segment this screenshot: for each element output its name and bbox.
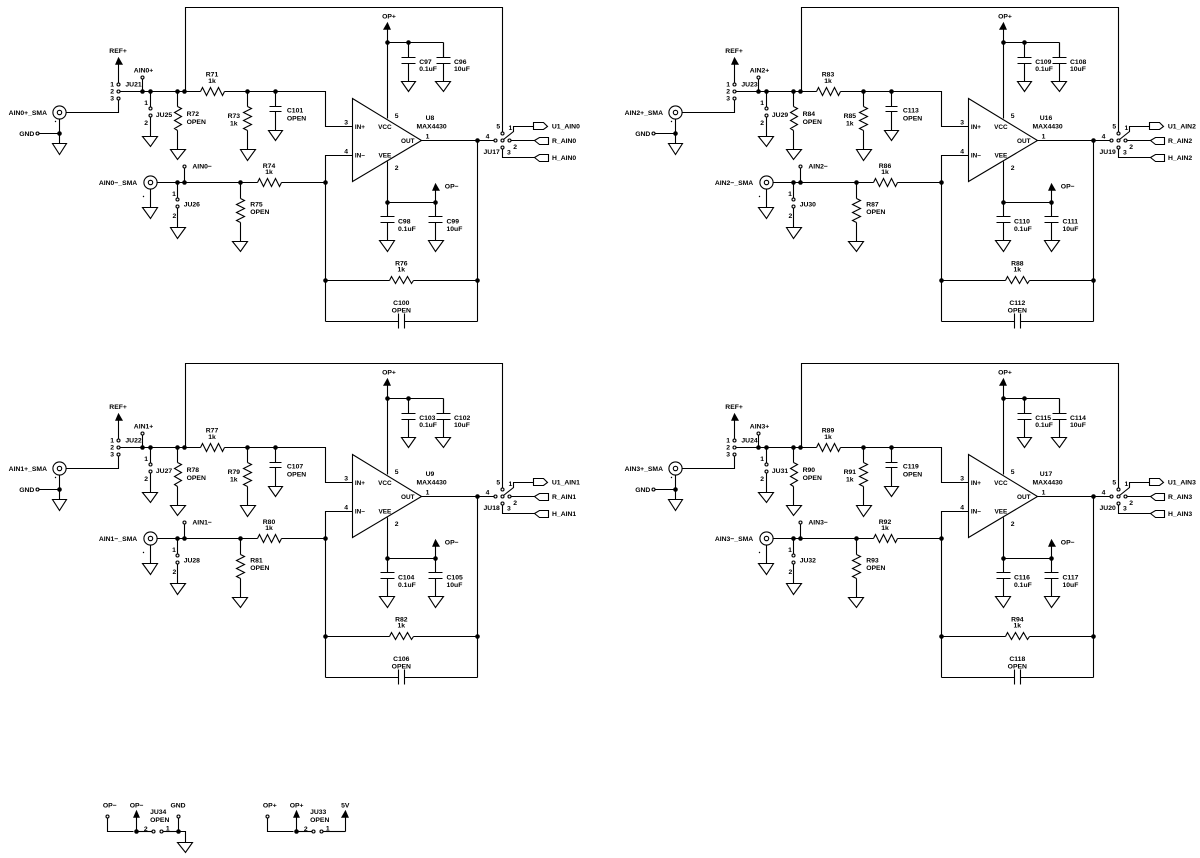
wire (OP- decoupling rail) [1004,202,1052,204]
svg-text:1: 1 [788,547,792,554]
wire (R78 leads) [177,448,179,506]
svg-text:1k: 1k [1014,267,1022,274]
svg-text:5: 5 [395,113,399,120]
svg-text:2: 2 [1129,144,1133,151]
capacitor C116 (0.1uF) [997,559,1032,597]
svg-text:5: 5 [395,469,399,476]
junction [175,536,180,541]
wire (R-in to IN- node) [898,182,942,184]
wire (OP- to centre) [108,818,134,832]
resistor R71 (1k) [201,72,225,96]
capacitor C113 (OPEN) [886,92,923,131]
junction [406,40,411,45]
node OP- [103,803,117,818]
wire (SMA- shield to ground) [766,190,768,208]
svg-text:C114: C114 [1070,415,1086,422]
jumper JU29 [760,92,788,137]
wire (op-amp output) [1038,496,1111,498]
svg-text:10uF: 10uF [447,226,463,233]
junction [433,200,438,205]
wire (R-in to IN- node) [282,538,326,540]
wire (GND stub) [178,818,180,830]
svg-text:U1_AIN3: U1_AIN3 [1168,480,1196,487]
junction [134,829,139,834]
jumper JU28 [172,539,200,584]
wire (top rail to output jumper pin 5) [186,8,503,133]
svg-text:IN−: IN− [355,152,365,159]
svg-text:VEE: VEE [379,152,393,159]
svg-text:JU19: JU19 [1100,149,1116,156]
svg-text:4: 4 [960,148,964,155]
junction [861,445,866,450]
net flag U1_AIN3 [1150,479,1197,487]
svg-text:1k: 1k [230,477,238,484]
junction [273,445,278,450]
svg-text:H_AIN1: H_AIN1 [552,511,576,518]
junction [175,180,180,185]
ground (C107) [269,487,283,497]
jumper JU31 [760,448,788,493]
wire (main row to op-amp IN+) [225,92,353,127]
capacitor C99 (10uF) [429,203,463,241]
junction [798,445,803,450]
svg-text:2: 2 [726,89,730,96]
wire (SMA- shield to ground) [766,546,768,564]
power REF+ [725,48,743,82]
svg-text:C110: C110 [1014,219,1030,226]
svg-text:2: 2 [144,476,148,483]
svg-text:4: 4 [344,148,348,155]
node GND [635,487,655,494]
svg-text:C100: C100 [393,300,409,307]
resistor R94 (1k) [1006,616,1030,639]
junction [791,536,796,541]
junction [1001,200,1006,205]
ground (C102) [436,438,451,448]
op-amp U8 MAX4430 [344,99,447,182]
svg-text:JU24: JU24 [741,438,757,445]
ground (C113) [885,131,899,141]
op-amp U16 MAX4430 [960,99,1063,182]
svg-text:1: 1 [144,456,148,463]
junction [1001,396,1006,401]
wire (feedback resistor row) [942,636,1094,638]
svg-text:H_AIN2: H_AIN2 [1168,155,1192,162]
wire (IN- node vertical to feedback) [326,156,353,322]
net flag H_AIN0 [535,155,577,163]
junction [323,536,328,541]
ground (C97) [402,82,416,92]
svg-text:AIN0+_SMA: AIN0+_SMA [9,110,47,117]
svg-text:5: 5 [1112,480,1116,487]
resistor R85 (1k) [844,107,868,131]
junction [148,89,153,94]
resistor R72 (OPEN) [175,107,206,131]
ground (R72) [171,150,186,160]
capacitor C117 (10uF) [1045,559,1079,597]
svg-text:1k: 1k [824,434,832,441]
svg-text:1k: 1k [881,169,889,176]
power OP- [1049,540,1075,559]
svg-text:H_AIN0: H_AIN0 [552,155,576,162]
wire (OP- decoupling rail) [388,202,436,204]
capacitor C107 (OPEN) [270,448,307,487]
power REF+ [109,404,127,438]
net flag H_AIN3 [1151,511,1193,519]
junction [764,445,769,450]
svg-text:C103: C103 [419,415,435,422]
svg-text:REF+: REF+ [109,404,127,411]
wire (to 10uF cap) [443,399,445,414]
ground (R75) [233,242,248,252]
wire (pin 2 to flag) [512,140,535,142]
wire (R91 leads) [863,448,865,506]
junction [861,89,866,94]
svg-text:OUT: OUT [1017,494,1031,501]
svg-text:1: 1 [144,100,148,107]
junction [140,445,145,450]
junction [475,634,480,639]
svg-text:1: 1 [1125,125,1129,132]
wire (feedback right vertical) [1093,497,1095,678]
svg-text:R73: R73 [228,113,241,120]
junction [406,396,411,401]
svg-text:AIN0−_SMA: AIN0−_SMA [99,180,137,187]
ground (C116) [996,597,1011,608]
svg-text:JU31: JU31 [772,468,788,475]
svg-text:5: 5 [496,124,500,131]
svg-text:C116: C116 [1014,575,1030,582]
ground (SMA shield) [669,144,683,155]
svg-text:VCC: VCC [994,124,1008,131]
junction [1022,396,1027,401]
svg-text:4: 4 [1102,489,1106,496]
wire (VEE pin to OP- rail) [1003,518,1005,559]
svg-text:2: 2 [760,476,764,483]
ground (R90) [787,506,802,516]
capacitor C112 (OPEN) [942,300,1094,329]
wire (JU33 pin 1 to 5V) [323,831,337,833]
svg-text:OPEN: OPEN [866,565,885,572]
junction [433,556,438,561]
power OP- [433,540,459,559]
junction [854,180,859,185]
svg-text:JU22: JU22 [125,438,141,445]
svg-text:U9: U9 [426,471,435,478]
node GND [19,131,39,138]
svg-text:10uF: 10uF [1070,66,1086,73]
junction [385,556,390,561]
junction [175,445,180,450]
power OP+ [382,14,396,43]
svg-text:3: 3 [344,476,348,483]
wire (R79 leads) [247,448,249,506]
resistor R77 (1k) [201,428,225,452]
svg-text:0.1uF: 0.1uF [398,226,416,233]
wire (OP- decoupling rail) [1004,558,1052,560]
wire (top rail to output jumper pin 5) [802,8,1119,133]
svg-text:GND: GND [19,487,34,494]
svg-text:2: 2 [173,213,177,220]
ground (C110) [996,241,1011,252]
svg-text:OPEN: OPEN [803,119,822,126]
svg-text:5V: 5V [341,803,350,810]
svg-text:AIN2+_SMA: AIN2+_SMA [625,110,663,117]
svg-text:3: 3 [110,452,114,459]
ground (R73) [241,150,256,161]
svg-text:3: 3 [344,120,348,127]
svg-text:R87: R87 [866,201,879,208]
wire (pin 3 to flag) [1119,505,1151,514]
svg-text:4: 4 [960,504,964,511]
wire (SMA shield to ground) [675,120,677,144]
wire (R81 leads) [240,539,242,598]
svg-text:R85: R85 [844,113,857,120]
power OP- [1049,184,1075,203]
svg-text:AIN2−_SMA: AIN2−_SMA [715,180,753,187]
wire [337,831,346,833]
svg-text:OP−: OP− [445,184,459,191]
junction [140,89,145,94]
wire (top rail to output jumper pin 5) [802,364,1119,489]
wire (jumper shunt to pin 1 flag) [1120,483,1150,496]
ground (JU25) [143,137,158,147]
capacitor C119 (OPEN) [886,448,923,487]
svg-text:C96: C96 [454,59,467,66]
svg-text:C117: C117 [1063,575,1079,582]
wire (pin 3 to flag) [1119,149,1151,158]
junction [1091,494,1096,499]
wire (AIN2+_SMA to JU23 pin 3) [683,101,735,113]
wire (VEE pin to OP- rail) [387,162,389,203]
junction [385,200,390,205]
power OP- [130,803,144,832]
wire (feedback right vertical) [477,141,479,322]
svg-text:3: 3 [507,150,511,157]
svg-text:10uF: 10uF [447,582,463,589]
jumper JU27 [144,448,172,493]
resistor R88 (1k) [1006,260,1030,283]
junction [385,396,390,401]
svg-text:U1_AIN0: U1_AIN0 [552,124,580,131]
jumper JU25 [144,92,172,137]
junction [475,278,480,283]
wire (SMA- shield to ground) [150,190,152,208]
svg-text:5: 5 [1011,469,1015,476]
junction [245,89,250,94]
svg-text:C104: C104 [398,575,414,582]
svg-text:1k: 1k [208,78,216,85]
svg-text:2: 2 [1011,521,1015,528]
ground (C103) [402,438,416,448]
svg-text:10uF: 10uF [1063,226,1079,233]
wire (main input row, left) [121,447,201,449]
svg-text:1: 1 [788,191,792,198]
svg-text:C119: C119 [903,463,919,470]
svg-text:AIN1−: AIN1− [192,520,211,527]
ground (C98) [380,241,395,252]
wire (pin 3 to flag) [503,505,535,514]
svg-text:OPEN: OPEN [1008,663,1027,670]
ground (SMA- shield) [759,564,774,575]
svg-text:4: 4 [1102,133,1106,140]
net flag H_AIN2 [1151,155,1193,163]
wire (VEE pin to OP- rail) [1003,162,1005,203]
wire (inverting input row, left) [773,182,874,184]
svg-text:AIN0−: AIN0− [192,164,211,171]
wire (SMA shield to ground) [59,476,61,500]
capacitor C101 (OPEN) [270,92,307,131]
wire (SMA shield to ground) [59,120,61,144]
wire (R-in to IN- node) [898,538,942,540]
wire (jumper shunt to pin 1 flag) [1120,127,1150,140]
ground (JU32) [787,584,802,595]
wire (pin 3 to flag) [503,149,535,158]
svg-text:GND: GND [19,131,34,138]
ground (JU27) [143,493,158,503]
ground (JU30) [787,228,802,239]
ground (C115) [1018,438,1032,448]
svg-text:1k: 1k [398,267,406,274]
jumper JU33 (OPEN) [299,809,330,833]
jumper JU24 (3-pin) [726,438,758,459]
svg-text:R_AIN3: R_AIN3 [1168,494,1192,501]
svg-text:IN+: IN+ [355,124,365,131]
svg-text:IN−: IN− [971,152,981,159]
wire (inverting input row, left) [157,182,258,184]
junction [889,445,894,450]
wire (R-in to IN- node) [282,182,326,184]
svg-text:AIN3+_SMA: AIN3+_SMA [625,466,663,473]
svg-text:C97: C97 [419,59,432,66]
jumper JU22 (3-pin) [110,438,142,459]
svg-text:1: 1 [726,438,730,445]
ground (SMA shield) [53,144,67,155]
svg-text:R75: R75 [250,201,263,208]
wire (R73 leads) [247,92,249,150]
jumper JU20 (5-pin) [1100,480,1134,513]
capacitor C109 (0.1uF) [1018,43,1053,82]
svg-text:IN+: IN+ [355,480,365,487]
ground (R81) [233,598,248,608]
capacitor C96 (10uF) [437,43,470,82]
svg-text:5: 5 [496,480,500,487]
wire (AIN0+_SMA to JU21 pin 3) [67,101,119,113]
junction [238,180,243,185]
jumper JU18 (5-pin) [484,480,518,513]
svg-text:2: 2 [1129,500,1133,507]
junction [939,634,944,639]
svg-text:GND: GND [170,803,185,810]
svg-text:JU21: JU21 [125,82,141,89]
net flag R_AIN2 [1151,138,1193,145]
junction [175,89,180,94]
junction [939,278,944,283]
resistor R78 (OPEN) [175,463,206,487]
junction [1001,40,1006,45]
wire (main input row, left) [737,91,817,93]
junction [182,536,187,541]
svg-text:OPEN: OPEN [903,115,922,122]
wire (op-amp output) [422,140,495,142]
wire (GND stub) [655,133,676,135]
net flag H_AIN1 [535,511,577,519]
svg-text:VEE: VEE [379,508,393,515]
ground (R78) [171,506,186,516]
svg-text:JU32: JU32 [800,557,816,564]
svg-text:1k: 1k [398,623,406,630]
svg-text:JU29: JU29 [772,112,788,119]
resistor R73 (1k) [228,107,252,131]
SMA connector AIN0+_SMA [9,106,66,122]
svg-text:JU18: JU18 [484,505,500,512]
junction [939,536,944,541]
capacitor C105 (10uF) [429,559,463,597]
node AIN2- [799,164,828,183]
svg-text:1: 1 [172,547,176,554]
wire (jumper shunt to pin 1 flag) [504,483,534,496]
svg-text:VCC: VCC [378,480,392,487]
capacitor C111 (10uF) [1045,203,1079,241]
svg-text:C112: C112 [1009,300,1025,307]
junction [1049,200,1054,205]
svg-text:OPEN: OPEN [187,119,206,126]
wire (feedback resistor row) [326,280,478,282]
svg-text:VCC: VCC [378,124,392,131]
svg-text:AIN1+: AIN1+ [134,424,153,431]
svg-text:JU28: JU28 [184,557,200,564]
wire (SMA shield to ground) [675,476,677,500]
svg-text:1: 1 [509,481,513,488]
ground (R91) [857,506,872,517]
wire (SMA- shield to ground) [150,546,152,564]
power OP- [433,184,459,203]
wire (VCC pin to OP+ rail) [387,399,389,475]
svg-text:2: 2 [173,569,177,576]
svg-text:GND: GND [635,487,650,494]
svg-text:1k: 1k [208,434,216,441]
wire (OP+ decoupling rail) [1004,398,1060,400]
SMA connector AIN1+_SMA [9,462,66,478]
junction [323,634,328,639]
svg-text:10uF: 10uF [454,66,470,73]
svg-text:OPEN: OPEN [250,209,269,216]
svg-text:C115: C115 [1035,415,1051,422]
svg-text:JU30: JU30 [800,201,816,208]
svg-text:JU17: JU17 [484,149,500,156]
svg-text:5: 5 [1112,124,1116,131]
svg-text:0.1uF: 0.1uF [419,66,437,73]
capacitor C110 (0.1uF) [997,203,1032,241]
junction [1091,138,1096,143]
net flag R_AIN0 [535,138,577,145]
svg-text:2: 2 [760,120,764,127]
svg-text:C105: C105 [447,575,463,582]
junction [791,445,796,450]
wire (VCC pin to OP+ rail) [1003,399,1005,475]
svg-text:R_AIN1: R_AIN1 [552,494,576,501]
node AIN0+ [134,68,153,92]
junction [182,89,187,94]
ground [178,843,193,853]
svg-text:OP−: OP− [130,803,144,810]
svg-text:JU33: JU33 [310,809,326,816]
resistor R84 (OPEN) [791,107,822,131]
svg-text:OPEN: OPEN [392,307,411,314]
resistor R91 (1k) [844,463,868,487]
ground (R84) [787,150,802,160]
ground (C101) [269,131,283,141]
